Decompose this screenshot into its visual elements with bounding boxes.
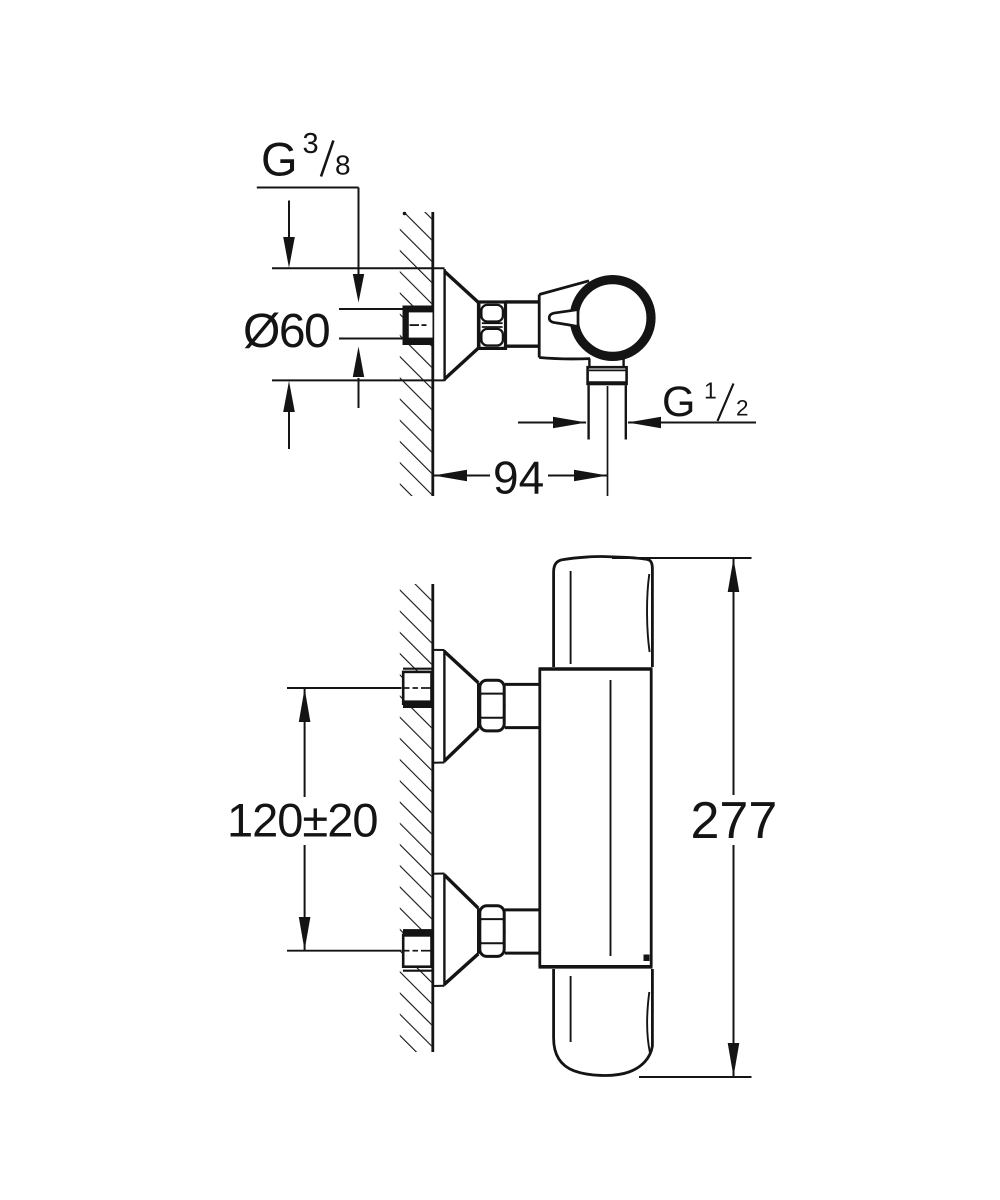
svg-text:G: G — [261, 133, 298, 186]
svg-text:2: 2 — [736, 396, 749, 421]
svg-text:120±20: 120±20 — [227, 794, 378, 847]
svg-text:1: 1 — [704, 378, 717, 404]
svg-text:277: 277 — [691, 792, 778, 850]
svg-text:8: 8 — [335, 150, 351, 181]
svg-text:3: 3 — [303, 128, 319, 160]
svg-text:94: 94 — [493, 452, 544, 504]
svg-text:Ø60: Ø60 — [243, 305, 329, 358]
svg-text:G: G — [662, 378, 695, 426]
